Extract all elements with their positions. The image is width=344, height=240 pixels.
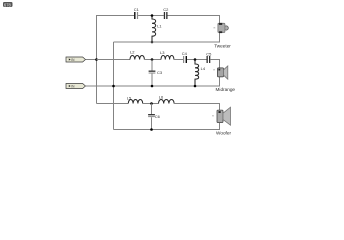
capacitor C6 xyxy=(148,104,161,130)
svg-text:L2: L2 xyxy=(130,50,135,55)
capacitor C4 xyxy=(182,51,188,63)
speaker midrange xyxy=(213,66,227,79)
svg-text:C5: C5 xyxy=(206,51,212,56)
inductor L2 xyxy=(130,50,144,60)
inductor L4 xyxy=(195,60,206,87)
svg-text:n: n xyxy=(212,113,214,117)
capacitor C5 xyxy=(206,51,212,63)
inductor L1 xyxy=(152,16,162,43)
inductor L5 xyxy=(127,95,143,103)
wire C1 to C2 xyxy=(138,15,164,17)
svg-text:L5: L5 xyxy=(127,95,132,100)
svg-text:L4: L4 xyxy=(201,66,206,71)
svg-text:n: n xyxy=(214,25,216,29)
node -IN junction xyxy=(112,85,115,88)
capacitor C1 xyxy=(134,7,140,19)
terminal -IN xyxy=(66,84,86,89)
wire -IN to return bus xyxy=(86,85,114,87)
wire plus bus vertical xyxy=(96,16,98,104)
wire return bus vertical xyxy=(113,42,115,130)
inductor L3 xyxy=(160,50,174,59)
wire midrange return rail xyxy=(114,77,220,86)
node L4 tap xyxy=(194,58,197,61)
wire node A to L2 xyxy=(97,59,131,61)
wire C5 to midrange xyxy=(210,60,219,68)
wire C4 to C5 xyxy=(187,59,207,61)
svg-text:Midrange: Midrange xyxy=(216,87,236,92)
wire L5 to L6 xyxy=(143,103,159,105)
wire +IN to node A xyxy=(86,59,97,61)
wire C2 to tweeter xyxy=(168,16,220,24)
capacitor C2 xyxy=(163,7,169,19)
node L1 bottom xyxy=(151,41,154,44)
svg-text:C1: C1 xyxy=(134,7,140,12)
wire L2 to L3 xyxy=(144,59,161,61)
wire top rail left segment xyxy=(96,15,134,17)
svg-text:L1: L1 xyxy=(157,24,162,29)
svg-text:n: n xyxy=(213,68,215,72)
wire tweeter return xyxy=(114,32,220,42)
svg-text:678: 678 xyxy=(4,2,12,7)
terminal +IN xyxy=(66,57,86,62)
node C3 tap xyxy=(151,58,154,61)
svg-text:C6: C6 xyxy=(155,114,161,119)
inductor L6 xyxy=(159,95,175,104)
wire L6 to woofer xyxy=(174,104,219,111)
svg-text:C2: C2 xyxy=(163,7,169,12)
node C6 bottom xyxy=(150,128,153,131)
node A junction xyxy=(95,58,98,61)
speaker woofer xyxy=(212,107,231,125)
sheet badge 678 xyxy=(3,2,13,7)
wire node A to L5 xyxy=(97,103,129,105)
svg-text:L3: L3 xyxy=(160,50,165,55)
wire L3 to C4 xyxy=(174,59,183,61)
node L4 bottom xyxy=(194,85,197,88)
wire woofer return rail xyxy=(114,123,220,130)
svg-text:Tweeter: Tweeter xyxy=(214,44,231,49)
svg-text:Woofer: Woofer xyxy=(216,131,231,136)
tweeter SP1 xyxy=(214,23,229,33)
svg-text:L6: L6 xyxy=(159,95,164,100)
node C3 bottom xyxy=(151,85,154,88)
capacitor C3 xyxy=(149,60,163,87)
node C6 tap xyxy=(150,102,153,105)
svg-text:C3: C3 xyxy=(157,70,163,75)
svg-text:C4: C4 xyxy=(182,51,188,56)
node L1 top xyxy=(151,14,154,17)
